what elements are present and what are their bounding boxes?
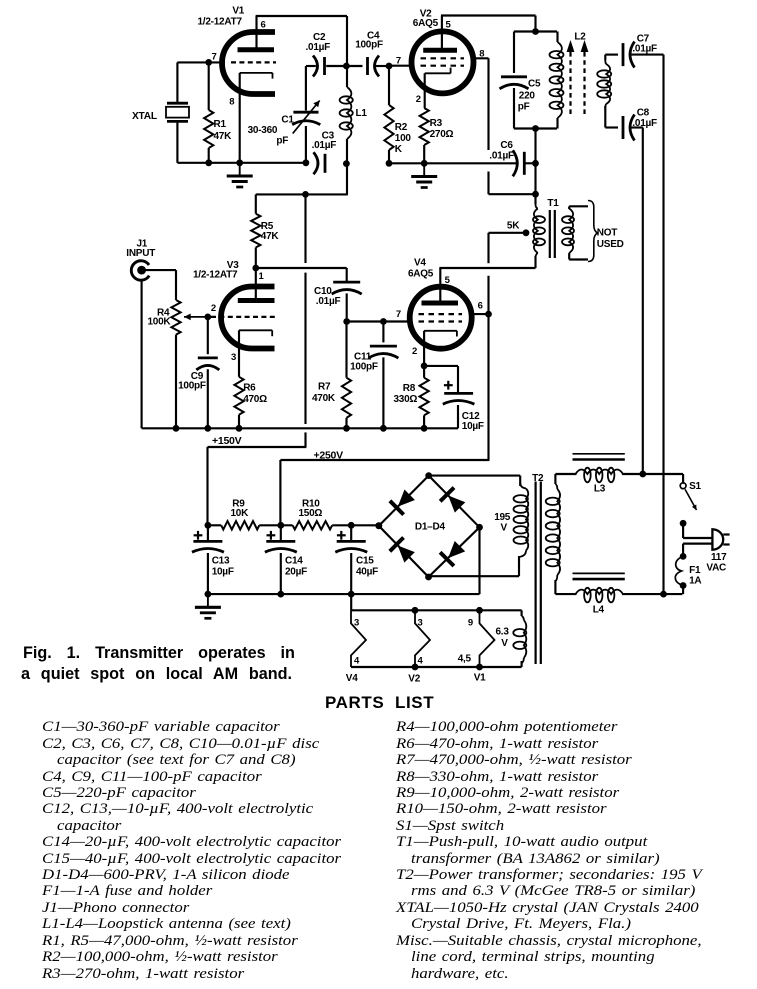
wire tank bottom to B+ wire — [256, 164, 348, 195]
wire J1 shield to ground rail — [141, 280, 143, 429]
wire fuse to L4 line — [682, 586, 684, 595]
tube V2 plate — [423, 48, 457, 53]
node R1 bottom — [205, 159, 212, 166]
svg-text:C14: C14 — [285, 556, 303, 567]
brace NOT USED — [588, 201, 598, 262]
tube V2 cathode — [425, 68, 451, 74]
wire bridge edges D1-D4 — [379, 476, 480, 577]
svg-text:V4: V4 — [414, 258, 426, 269]
wire plug to fuse — [683, 544, 712, 557]
wire ground rail V2 stage — [389, 162, 517, 164]
node C11 bottom — [380, 425, 387, 432]
svg-text:100pF: 100pF — [178, 381, 206, 392]
node heater V1 bottom — [476, 664, 483, 671]
svg-text:L3: L3 — [594, 484, 606, 495]
wire +150V riser lower segment — [208, 432, 307, 525]
svg-text:C5: C5 — [528, 79, 541, 90]
ground symbol power supply — [195, 594, 221, 618]
component value labels — [126, 6, 727, 685]
resistor R10 150ohm — [293, 521, 333, 529]
wire J1 to R4 — [145, 270, 176, 300]
wire supply filter rail — [208, 524, 379, 526]
tube V2 control grid (dashed) — [421, 65, 465, 67]
svg-text:4,5: 4,5 — [458, 654, 472, 665]
svg-text:.01µF: .01µF — [316, 296, 341, 307]
tube V3 1/2-12AT7 envelope — [221, 287, 275, 349]
wire +150V riser middle segment — [304, 273, 306, 424]
svg-text:4: 4 — [418, 656, 424, 667]
node V3 grid junction — [204, 314, 211, 321]
svg-text:.01µF: .01µF — [632, 44, 657, 55]
svg-text:pF: pF — [276, 136, 288, 147]
capacitor C13 10uF electrolytic — [192, 525, 224, 594]
svg-text:R8: R8 — [403, 383, 416, 394]
tube V2 screen grid (dashed) — [421, 57, 465, 59]
svg-text:1/2-12AT7: 1/2-12AT7 — [198, 17, 243, 28]
svg-text:6: 6 — [478, 301, 483, 312]
svg-text:NOT: NOT — [597, 228, 618, 239]
transformer T2 core — [536, 482, 541, 665]
node heater V1 top — [476, 607, 483, 614]
svg-text:USED: USED — [597, 239, 624, 250]
ground symbol V1 stage — [227, 163, 253, 187]
capacitor C6 .01uF — [513, 150, 536, 176]
wire L4 line — [555, 593, 682, 595]
svg-text:L1: L1 — [356, 108, 368, 119]
node V4 cathode junction — [421, 363, 428, 370]
wire tank top rail — [514, 30, 557, 32]
svg-text:3: 3 — [418, 618, 423, 629]
capacitor C1 30-360pF variable — [292, 66, 320, 163]
tube V3 cathode — [239, 330, 272, 336]
tube V4 cathode — [424, 331, 457, 337]
svg-text:8: 8 — [229, 97, 234, 108]
svg-text:VAC: VAC — [706, 563, 726, 574]
svg-text:20µF: 20µF — [285, 567, 307, 578]
wire tank bottom to T1 — [534, 129, 536, 195]
svg-text:195: 195 — [494, 512, 511, 523]
antenna radiation arrows L2 — [567, 40, 589, 114]
capacitor C11 100pF — [368, 322, 398, 429]
svg-text:100K: 100K — [148, 317, 172, 328]
capacitor C5 220pF — [500, 32, 529, 129]
diode D2 (top-right) — [440, 488, 465, 513]
node C11 junction — [380, 318, 387, 325]
svg-text:1A: 1A — [689, 576, 701, 587]
svg-text:pF: pF — [518, 102, 530, 113]
svg-text:2: 2 — [416, 94, 421, 105]
wire +150V riser upper segment — [304, 194, 306, 263]
wire V2 grid — [389, 65, 412, 67]
svg-text:10µF: 10µF — [212, 567, 234, 578]
wire common rail audio stages — [142, 427, 458, 429]
svg-text:V4: V4 — [346, 673, 358, 684]
svg-text:R7: R7 — [318, 382, 331, 393]
tube V3 plate — [238, 298, 275, 303]
node V1 cathode ground — [236, 159, 243, 166]
wire ground rail V1 stage — [177, 162, 306, 164]
resistor R5 47K — [251, 194, 260, 268]
wire heater top rail — [351, 609, 522, 611]
svg-text:D1–D4: D1–D4 — [415, 522, 446, 533]
node V4 screen junction — [485, 311, 492, 318]
node C10 bottom / V4 grid — [343, 318, 350, 325]
svg-text:100: 100 — [395, 133, 412, 144]
resistor R9 10K — [221, 521, 259, 529]
ground symbol V2 stage — [411, 163, 437, 187]
inductor L2 — [550, 32, 564, 129]
svg-text:2: 2 — [211, 303, 216, 314]
svg-text:V1: V1 — [232, 6, 244, 17]
tube V4 plate — [422, 301, 459, 306]
svg-text:100pF: 100pF — [350, 362, 378, 373]
node V1 grid junction — [205, 59, 212, 66]
node R7 bottom — [343, 425, 350, 432]
svg-text:5K: 5K — [507, 221, 520, 232]
diode D1 (top-left) — [390, 490, 415, 515]
transformer T1 primary — [533, 194, 545, 268]
svg-text:7: 7 — [212, 52, 217, 63]
node R6 bottom — [236, 425, 243, 432]
svg-text:270Ω: 270Ω — [430, 129, 454, 140]
crystal XTAL — [166, 62, 189, 162]
svg-text:47K: 47K — [261, 231, 280, 242]
wire bridge bottom to T2 secondary — [429, 565, 520, 576]
svg-text:F1: F1 — [689, 565, 701, 576]
node T1 primary top — [532, 191, 539, 198]
svg-text:9: 9 — [468, 618, 473, 629]
resistor R7 470K — [342, 322, 351, 429]
svg-text:2: 2 — [412, 346, 417, 357]
parts list left column — [0, 0, 1, 1]
diode D4 (bottom-right) — [440, 541, 465, 566]
parts list right column — [0, 0, 1, 1]
node V3 plate junction — [252, 265, 259, 272]
node B+ junction (to +150V) — [302, 191, 309, 198]
node bridge right — [476, 524, 483, 531]
svg-text:150Ω: 150Ω — [299, 508, 323, 519]
svg-text:.01µF: .01µF — [489, 150, 514, 161]
svg-text:330Ω: 330Ω — [394, 394, 418, 405]
wire V2 screen line lower segment — [489, 172, 536, 195]
node C9 bottom — [204, 425, 211, 432]
svg-text:L2: L2 — [574, 32, 586, 43]
svg-text:C1: C1 — [281, 115, 294, 126]
node L1 bottom junction — [343, 160, 350, 167]
wire tank bottom rail — [514, 127, 557, 129]
transformer T2 6.3V winding — [513, 610, 526, 667]
node tank bottom — [532, 125, 539, 132]
svg-text:.01µF: .01µF — [632, 118, 657, 129]
ferrite bar L3 — [573, 454, 625, 460]
svg-text:T1: T1 — [547, 198, 559, 209]
svg-text:10K: 10K — [231, 508, 250, 519]
svg-text:220: 220 — [519, 91, 536, 102]
svg-text:100pF: 100pF — [355, 40, 383, 51]
svg-text:3: 3 — [354, 618, 359, 629]
parts list title — [325, 693, 434, 713]
svg-text:6AQ5: 6AQ5 — [413, 18, 439, 29]
wire bridge top to T2 secondary — [429, 476, 521, 486]
wire screen supply lower segment — [280, 276, 489, 460]
node R3 bottom — [421, 160, 428, 167]
wire +250V feed — [279, 460, 281, 525]
tube V4 screen grid (dashed) — [419, 313, 463, 315]
svg-text:8: 8 — [479, 49, 484, 60]
capacitor C15 40uF electrolytic — [335, 525, 367, 594]
tube V2 6AQ5 envelope — [412, 31, 474, 93]
transformer T2 secondary 195V — [514, 483, 529, 566]
transformer T1 core — [550, 210, 555, 258]
wiper arrow R4 — [184, 314, 208, 321]
tube V1 1/2-12AT7 envelope — [222, 32, 275, 94]
node C13 top — [205, 522, 212, 529]
node bridge left — [375, 522, 382, 529]
node heater V2 top — [412, 607, 419, 614]
svg-text:R3: R3 — [430, 118, 443, 129]
resistor R3 270ohm cathode — [420, 73, 429, 163]
tube V1 cathode — [240, 73, 273, 79]
potentiometer R4 100K — [171, 300, 180, 428]
node bridge bottom — [425, 574, 432, 581]
svg-text:V2: V2 — [408, 674, 420, 685]
capacitor C10 .01uF — [332, 282, 362, 321]
node C15 bottom — [348, 591, 355, 598]
wire C8 line down to L3 output — [642, 128, 644, 475]
wire screen supply upper segment — [487, 233, 489, 263]
node S1 lower — [680, 520, 687, 527]
node fuse bottom — [680, 582, 687, 589]
svg-text:10µF: 10µF — [462, 421, 484, 432]
svg-text:1/2-12AT7: 1/2-12AT7 — [193, 270, 238, 281]
svg-text:4: 4 — [354, 656, 360, 667]
inductor L4 — [576, 588, 624, 603]
svg-text:V: V — [501, 523, 508, 534]
svg-text:R1: R1 — [214, 119, 227, 130]
svg-text:1: 1 — [259, 271, 265, 282]
wire supply ground rail — [208, 527, 480, 594]
svg-text:INPUT: INPUT — [126, 248, 155, 259]
node C1 bottom ground junction — [303, 159, 310, 166]
svg-text:T2: T2 — [532, 473, 544, 484]
wire V1 grid (pin 7) — [177, 61, 225, 63]
resistor R1 47K — [204, 62, 213, 162]
svg-text:6.3: 6.3 — [496, 627, 510, 638]
tube V4 control grid (dashed) — [419, 320, 463, 322]
svg-text:L4: L4 — [593, 605, 605, 616]
wire V2 plate (pin 5) to tank top — [441, 16, 536, 49]
svg-text:7: 7 — [396, 56, 401, 67]
heater pins V2 (3,4) — [415, 610, 430, 667]
wire 5K tap — [489, 232, 525, 234]
figure caption — [23, 644, 295, 663]
wire V4 screen (pin 6) — [470, 313, 489, 315]
capacitor C12 10uF electrolytic — [424, 366, 474, 428]
wire S1 to plug — [683, 523, 712, 538]
fuse F1 1A — [675, 556, 683, 585]
wire C15 node to heater rail — [350, 594, 352, 610]
svg-text:XTAL: XTAL — [132, 111, 157, 122]
node C2/C4/L1 junction — [343, 63, 350, 70]
wire L3 line — [555, 473, 683, 475]
svg-text:117: 117 — [711, 552, 727, 563]
svg-text:S1: S1 — [689, 481, 701, 492]
node 5K tap — [523, 229, 530, 236]
wire V2 screen (pin 6) — [472, 58, 489, 150]
svg-text:47K: 47K — [214, 131, 233, 142]
svg-text:+150V: +150V — [212, 435, 242, 447]
resistor R8 330ohm — [420, 366, 429, 428]
antenna coupling coil — [597, 55, 611, 128]
wire V4 plate (pin 5) to T1 — [439, 268, 535, 302]
svg-text:+250V: +250V — [314, 450, 344, 462]
resistor R6 470ohm — [234, 330, 243, 428]
svg-text:470K: 470K — [312, 393, 336, 404]
svg-text:V: V — [501, 638, 508, 649]
heater pins V1 (9,4,5) — [480, 610, 495, 667]
node R8 bottom — [421, 425, 428, 432]
ferrite bar L4 — [573, 573, 625, 579]
tube V4 6AQ5 envelope — [410, 287, 472, 349]
node L3 output — [639, 471, 646, 478]
wire V4 cathode (pin 2) — [423, 331, 425, 366]
plug 117 VAC — [712, 529, 729, 549]
node heater V2 bottom — [412, 664, 419, 671]
capacitor C4 100pF — [346, 56, 389, 77]
transformer T1 secondary — [562, 206, 588, 259]
node bridge + output — [375, 522, 382, 529]
node bridge top — [425, 472, 432, 479]
svg-text:R6: R6 — [243, 383, 256, 394]
node C14 top — [277, 522, 284, 529]
node C15 top — [348, 522, 355, 529]
switch S1 — [680, 474, 696, 510]
svg-text:R2: R2 — [395, 122, 408, 133]
svg-text:7: 7 — [396, 309, 401, 320]
wire V3 plate (pin 1) — [255, 268, 257, 299]
tube V1 plate — [238, 47, 275, 52]
svg-text:K: K — [395, 144, 403, 155]
svg-text:V1: V1 — [474, 673, 486, 684]
node C14 bottom — [277, 591, 284, 598]
inductor L3 — [576, 468, 624, 483]
wire heater bottom rail — [351, 666, 522, 668]
svg-text:C13: C13 — [212, 556, 230, 567]
svg-text:5: 5 — [446, 20, 452, 31]
node C13 bottom — [205, 591, 212, 598]
svg-text:.01µF: .01µF — [312, 140, 337, 151]
capacitor C3 .01uF — [314, 152, 326, 174]
capacitor C2 .01uF — [306, 56, 347, 77]
node tank top — [532, 28, 539, 35]
node R2 bottom — [386, 160, 393, 167]
inductor L1 — [340, 66, 353, 164]
connector J1 phono — [131, 261, 149, 280]
tube V3 grid (dashed) — [211, 316, 275, 318]
svg-text:.01µF: .01µF — [306, 42, 331, 53]
svg-text:5: 5 — [445, 275, 451, 286]
capacitor C7 .01uF — [605, 42, 663, 68]
wire V4 grid — [347, 320, 410, 322]
node C6 junction — [532, 160, 539, 167]
svg-text:6: 6 — [261, 20, 266, 31]
svg-text:40µF: 40µF — [356, 567, 378, 578]
svg-text:C15: C15 — [356, 556, 374, 567]
diode D3 (bottom-left) — [390, 538, 415, 563]
node R4 bottom — [173, 425, 180, 432]
wire V1 plate lead to top rail — [256, 16, 347, 66]
transformer T2 primary — [546, 474, 560, 594]
capacitor C8 .01uF — [605, 115, 643, 141]
capacitor C9 100pF — [196, 317, 219, 428]
wire C7 line down to L4 output — [662, 55, 664, 595]
heater pins V4 (3,4) — [351, 610, 366, 667]
tube V1 grid (dashed) — [231, 61, 276, 63]
svg-text:470Ω: 470Ω — [243, 394, 267, 405]
node L4 output — [660, 591, 667, 598]
svg-text:30-360: 30-360 — [248, 125, 278, 136]
svg-text:3: 3 — [231, 352, 236, 363]
node fuse top — [680, 553, 687, 560]
resistor R2 100K — [384, 66, 393, 163]
wire V1 cathode pin 8 to ground rail — [239, 73, 241, 163]
svg-text:6AQ5: 6AQ5 — [408, 269, 434, 280]
node V2 grid junction — [386, 63, 393, 70]
wire V3 plate node to C10 — [256, 268, 347, 281]
capacitor C14 20uF electrolytic — [265, 525, 297, 594]
